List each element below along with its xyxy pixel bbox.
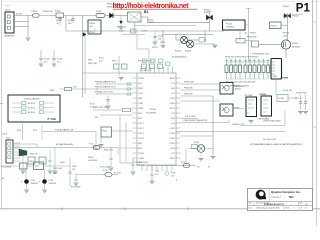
svg-text:PQ202: PQ202	[175, 51, 181, 53]
svg-text:100U/35V: 100U/35V	[226, 27, 235, 29]
svg-text:PC28: PC28	[155, 171, 159, 173]
svg-text:0.47U/0805: 0.47U/0805	[88, 160, 97, 162]
svg-text:PR201 2A/32V: PR201 2A/32V	[107, 3, 119, 6]
svg-text:FOR NDS0605 ONLY: FOR NDS0605 ONLY	[252, 54, 270, 56]
svg-text:PGND: PGND	[138, 153, 145, 155]
svg-text:PL23: PL23	[35, 166, 39, 168]
svg-text:CSP1: CSP1	[170, 98, 176, 100]
svg-text:PC201: PC201	[226, 23, 233, 25]
svg-text:PR42 10K: PR42 10K	[30, 154, 38, 156]
svg-text:REF2: REF2	[170, 158, 176, 160]
svg-text:AO4407 AO4407: AO4407 AO4407	[172, 56, 186, 59]
svg-text:PQ203: PQ203	[185, 51, 191, 53]
svg-text:AC-IN S1: AC-IN S1	[28, 106, 35, 109]
svg-text:VIN: VIN	[88, 60, 92, 62]
svg-text:5: 5	[294, 207, 295, 209]
svg-text:P 10B: P 10B	[48, 117, 57, 121]
svg-text:Size: Size	[249, 203, 252, 205]
svg-text:PR29 B-CHARGE 1%-R: PR29 B-CHARGE 1%-R	[95, 86, 116, 89]
svg-text:CSN2: CSN2	[169, 133, 175, 135]
svg-text:100U/16V: 100U/16V	[49, 183, 57, 185]
svg-text:PD202: PD202	[293, 16, 299, 18]
svg-text:PR40 A-CHARGE 10K: PR40 A-CHARGE 10K	[55, 129, 74, 132]
svg-text:PC206: PC206	[44, 59, 50, 61]
svg-text:OUT2: OUT2	[138, 128, 144, 130]
svg-text:LGND: LGND	[138, 158, 144, 160]
svg-text:PR45: PR45	[72, 166, 77, 168]
svg-text:1 MEG IN 0805 PLACE: 1 MEG IN 0805 PLACE	[263, 119, 282, 122]
svg-text:PL24: PL24	[103, 170, 107, 172]
svg-text:PC24: PC24	[90, 104, 95, 106]
svg-text:2N7002: 2N7002	[235, 89, 241, 91]
svg-text:NDS0605: NDS0605	[292, 47, 300, 49]
svg-text:SKIP: SKIP	[138, 88, 143, 90]
svg-text:PR211: PR211	[271, 26, 277, 28]
svg-text:+3V_S: +3V_S	[2, 134, 8, 136]
svg-text:PL301 1R0: PL301 1R0	[283, 90, 292, 92]
svg-text:AC-IN S1: AC-IN S1	[28, 102, 35, 105]
svg-text:PR30 AD-CHG 1%-R: PR30 AD-CHG 1%-R	[95, 91, 113, 94]
svg-text:SS24: SS24	[204, 12, 208, 14]
svg-text:PL300: PL300	[279, 98, 284, 100]
svg-text:GDS: GDS	[170, 148, 175, 150]
svg-text:PJ4 J10-1 J10T: PJ4 J10-1 J10T	[263, 139, 277, 141]
svg-text:Wednesday, January 08, 2003: Wednesday, January 08, 2003	[257, 206, 280, 209]
svg-text:PR27: PR27	[112, 61, 117, 63]
svg-text:PJ20: PJ20	[273, 76, 277, 78]
svg-text:PD204: PD204	[204, 10, 210, 12]
svg-text:CSP2: CSP2	[170, 128, 176, 130]
svg-text:ILIM2: ILIM2	[138, 108, 144, 110]
svg-text:B+ CHG: B+ CHG	[114, 173, 121, 175]
svg-text:PC36 1000P: PC36 1000P	[71, 187, 81, 189]
svg-text:Quanta Computer Inc.: Quanta Computer Inc.	[271, 190, 301, 194]
svg-text:PL23 10UH: PL23 10UH	[53, 168, 63, 170]
svg-text:POK2: POK2	[169, 143, 175, 145]
svg-text:SYSTEM ALWAYS HAVE B+ WHEN NO: SYSTEM ALWAYS HAVE B+ WHEN NO BATTERY AD…	[250, 143, 303, 146]
svg-text:PC33: PC33	[31, 180, 36, 182]
svg-text:PC200: PC200	[56, 20, 62, 22]
svg-text:AC-IN S1: AC-IN S1	[28, 111, 35, 114]
svg-text:PR210 10K: PR210 10K	[247, 37, 257, 39]
svg-text:100U/16V: 100U/16V	[31, 183, 39, 185]
svg-text:TW3: TW3	[289, 197, 295, 199]
svg-text:PR213: PR213	[283, 33, 289, 35]
svg-text:100K: 100K	[283, 36, 288, 38]
svg-text:ISL6237IRZ: ISL6237IRZ	[146, 113, 157, 115]
svg-text:SCL: SCL	[95, 117, 99, 119]
svg-text:PWR_SRC: PWR_SRC	[88, 63, 98, 65]
svg-text:OUT1: OUT1	[138, 123, 144, 125]
svg-text:PF200: PF200	[32, 11, 39, 13]
svg-text:PC207: PC207	[57, 59, 63, 61]
svg-text:PL-83/8038: PL-83/8038	[2, 167, 11, 169]
svg-text:PR208: PR208	[250, 33, 256, 35]
svg-text:VDDP: VDDP	[138, 78, 144, 80]
svg-text:PD205 SS24: PD205 SS24	[107, 6, 117, 8]
svg-text:PU201: PU201	[150, 109, 157, 111]
svg-text:REF: REF	[138, 98, 143, 100]
svg-text:PC300 PC301: PC300 PC301	[296, 93, 307, 95]
svg-text:PC26 4.7U/16V: PC26 4.7U/16V	[137, 162, 150, 164]
svg-text:PQ24: PQ24	[102, 131, 107, 133]
svg-text:PQ26: PQ26	[194, 142, 199, 144]
svg-text:PJ8B: PJ8B	[283, 78, 289, 80]
svg-text:PJ4 TP-CHG: PJ4 TP-CHG	[185, 116, 196, 118]
svg-text:PR43 0.025: PR43 0.025	[104, 150, 113, 152]
svg-text:PC27 0.1U: PC27 0.1U	[137, 165, 146, 167]
svg-text:PC34: PC34	[49, 180, 54, 182]
svg-text:PR27: PR27	[50, 90, 55, 92]
svg-text:PQ201: PQ201	[89, 32, 95, 34]
svg-text:PC31: PC31	[33, 130, 37, 132]
svg-text:PL201: PL201	[96, 11, 103, 13]
svg-text:PC205: PC205	[158, 36, 163, 38]
svg-text:PL22: PL22	[89, 144, 93, 146]
svg-text:TON: TON	[138, 93, 143, 95]
svg-text:PR33 100K: PR33 100K	[184, 82, 194, 84]
svg-text:CSN1: CSN1	[169, 103, 175, 105]
svg-text:PR200 10K: PR200 10K	[43, 11, 53, 13]
svg-text:BST2: BST2	[170, 108, 176, 110]
svg-text:PR41: PR41	[29, 161, 33, 163]
svg-text:PR34 33K: PR34 33K	[184, 88, 193, 90]
svg-text:POK1: POK1	[169, 138, 175, 140]
svg-text:PR206: PR206	[160, 42, 165, 44]
svg-text:PR28 A-CHARGE 1%-R: PR28 A-CHARGE 1%-R	[95, 81, 116, 84]
svg-text:PR40: PR40	[17, 130, 21, 132]
svg-text:PQ204: PQ204	[292, 43, 298, 45]
svg-text:VIN: VIN	[138, 83, 142, 85]
svg-text:CONN_CHARGER: CONN_CHARGER	[24, 98, 40, 101]
svg-text:5VPCU: 5VPCU	[152, 47, 158, 49]
svg-text:PR-14: PR-14	[88, 157, 93, 159]
svg-text:PROJECT: PROJECT	[272, 197, 282, 199]
svg-text:PD201: PD201	[283, 6, 289, 8]
svg-text:PGD2: PGD2	[138, 138, 145, 140]
svg-text:Rev: Rev	[300, 203, 303, 205]
svg-text:PC39: PC39	[171, 173, 175, 175]
svg-text:B+CHARGE A-GATE: B+CHARGE A-GATE	[56, 143, 74, 146]
svg-text:ADAPTER: ADAPTER	[5, 35, 15, 38]
svg-text:ILIM1: ILIM1	[138, 103, 144, 105]
svg-text:PC37: PC37	[53, 173, 57, 175]
svg-text:BST1: BST1	[170, 78, 176, 80]
svg-text:10: 10	[305, 207, 307, 209]
svg-text:B1: B1	[144, 10, 148, 14]
svg-text:DC-IN: DC-IN	[16, 14, 22, 16]
svg-text:PR214 PR215 PR216 PR217 PR218: PR214 PR215 PR216 PR217 PR218 PR219	[225, 56, 258, 58]
svg-text:PR35 10K: PR35 10K	[184, 94, 193, 96]
svg-text:1 MEG IN 0805 PLACE AT PIN: 1 MEG IN 0805 PLACE AT PIN	[183, 119, 208, 122]
svg-text:PR204: PR204	[90, 23, 96, 25]
svg-text:PR44: PR44	[60, 162, 65, 164]
svg-text:PL21: PL21	[181, 162, 185, 164]
svg-text:KOBRA05 BLUETO-TI: KOBRA05 BLUETO-TI	[264, 203, 285, 206]
svg-text:PL200: PL200	[55, 11, 60, 13]
svg-text:PGD1: PGD1	[138, 133, 145, 135]
svg-text:4.7U 0805 10K: 4.7U 0805 10K	[140, 70, 152, 72]
svg-text:VREF PR31 47K: VREF PR31 47K	[93, 107, 108, 109]
svg-text:PC21: PC21	[99, 58, 104, 60]
